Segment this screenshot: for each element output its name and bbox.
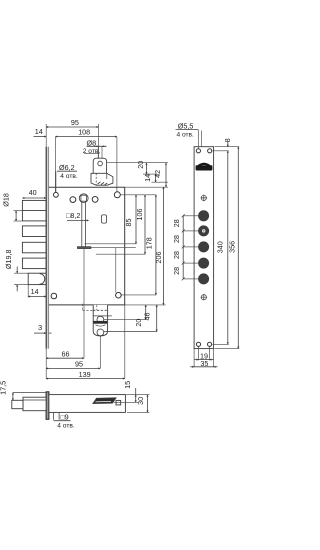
svg-text:4 отв.: 4 отв. (57, 422, 75, 429)
svg-text:17,5: 17,5 (0, 381, 8, 395)
svg-text:28: 28 (172, 251, 181, 259)
svg-text:95: 95 (71, 118, 79, 127)
svg-text:85: 85 (124, 219, 133, 227)
svg-text:Ø8: Ø8 (87, 138, 97, 147)
svg-text:66: 66 (62, 349, 70, 358)
svg-text:106: 106 (135, 209, 144, 221)
svg-text:340: 340 (216, 241, 225, 253)
svg-text:14: 14 (143, 174, 152, 182)
svg-text:Ø19,8: Ø19,8 (4, 250, 13, 270)
svg-text:Ø18: Ø18 (2, 193, 11, 207)
svg-text:□8,2: □8,2 (66, 211, 80, 220)
svg-text:108: 108 (78, 127, 90, 136)
svg-text:14: 14 (31, 287, 39, 296)
svg-text:178: 178 (144, 237, 153, 249)
svg-text:46: 46 (143, 313, 152, 321)
svg-text:14: 14 (35, 127, 43, 136)
svg-text:Ø6,2: Ø6,2 (59, 163, 75, 172)
svg-text:4 отв.: 4 отв. (60, 173, 78, 180)
svg-text:□9: □9 (60, 413, 68, 422)
svg-text:4 отв.: 4 отв. (177, 132, 195, 139)
svg-text:28: 28 (172, 219, 181, 227)
svg-text:30: 30 (136, 397, 145, 405)
svg-text:БАРЬЕР: БАРЬЕР (197, 166, 212, 171)
svg-text:95: 95 (75, 360, 83, 369)
svg-text:40: 40 (29, 188, 37, 197)
svg-text:139: 139 (79, 370, 91, 379)
svg-text:15: 15 (123, 381, 132, 389)
svg-text:28: 28 (172, 235, 181, 243)
svg-text:20: 20 (136, 161, 145, 169)
svg-text:42: 42 (153, 170, 162, 178)
svg-text:356: 356 (227, 241, 236, 253)
svg-text:35: 35 (200, 359, 208, 368)
svg-text:2 отв.: 2 отв. (83, 148, 101, 155)
svg-text:8: 8 (223, 138, 232, 142)
svg-text:Ø5,5: Ø5,5 (178, 121, 194, 130)
svg-text:3: 3 (38, 323, 42, 332)
svg-text:28: 28 (172, 267, 181, 275)
svg-text:206: 206 (154, 252, 163, 264)
